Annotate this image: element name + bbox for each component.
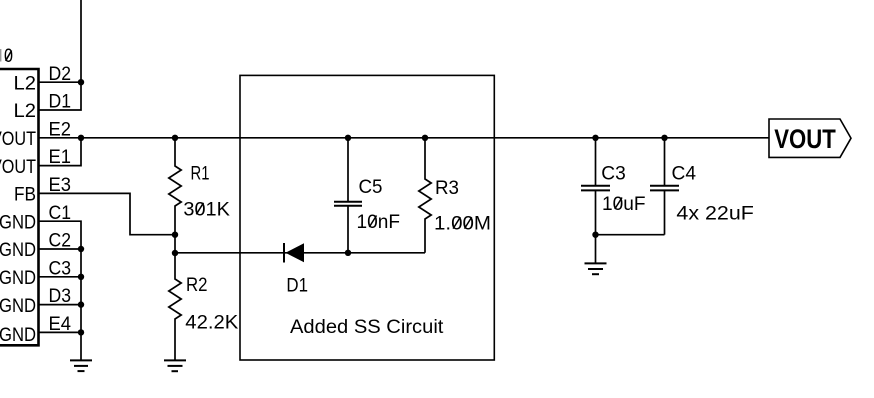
- svg-text:D2: D2: [49, 63, 72, 85]
- svg-text:D1: D1: [49, 91, 72, 113]
- svg-text:E1: E1: [49, 146, 72, 168]
- svg-text:E2: E2: [49, 118, 72, 140]
- svg-text:C1: C1: [49, 202, 72, 224]
- node: C2/gnd bus junction: [78, 246, 84, 252]
- svg-text:VOUT: VOUT: [774, 124, 836, 154]
- wire: E1 pin stub: [39, 138, 82, 166]
- capacitor C5: [334, 135, 383, 256]
- node: FB / R1 bottom junction: [172, 232, 178, 238]
- svg-text:4x 22uF: 4x 22uF: [676, 203, 754, 225]
- value 301K: [183, 198, 230, 220]
- node: D3/gnd bus junction: [78, 301, 84, 307]
- value 10nF: [357, 211, 401, 233]
- svg-text:R2: R2: [186, 274, 208, 296]
- resistor R2: [169, 253, 208, 360]
- svg-text:VOUT: VOUT: [0, 128, 36, 150]
- svg-text:C2: C2: [49, 230, 72, 252]
- wire: between FB junction and R2 top: [174, 235, 176, 253]
- wire: C2 pin stub: [39, 248, 82, 250]
- svg-text:C3: C3: [601, 162, 626, 184]
- wire: D1 pin stub: [39, 82, 82, 110]
- value 1.00M: [434, 213, 491, 235]
- svg-text:GND: GND: [0, 267, 36, 289]
- ground (C3/C4): [585, 263, 607, 274]
- svg-text:L2: L2: [14, 100, 37, 122]
- wire: C1 pin stub + gnd bus: [39, 221, 82, 360]
- svg-text:Added SS Circuit: Added SS Circuit: [290, 316, 444, 338]
- svg-text:301K: 301K: [183, 198, 230, 220]
- svg-text:GND: GND: [0, 324, 36, 346]
- wire: C3/C4 bottom tie: [596, 234, 665, 236]
- capacitor C3: [581, 135, 626, 264]
- node: C3/gnd bus junction: [78, 274, 84, 280]
- diode D1: [284, 243, 308, 297]
- node: D2/D1 junction: [78, 79, 84, 85]
- wire: FB route E3: [39, 193, 176, 234]
- value 10uF: [602, 193, 646, 215]
- svg-text:C3: C3: [49, 257, 72, 279]
- svg-text:GND: GND: [0, 295, 36, 317]
- node: E2/E1 junction: [78, 135, 84, 141]
- wire: soft-start net (D1 anode run): [175, 252, 425, 254]
- pin function labels (inside IC, right aligned): [0, 72, 36, 346]
- svg-text:R3: R3: [435, 177, 459, 199]
- svg-text:D3: D3: [49, 285, 72, 307]
- wire: D3 pin stub: [39, 304, 82, 306]
- svg-text:42.2K: 42.2K: [185, 311, 238, 333]
- ground (R2): [164, 360, 186, 371]
- box: Added SS Circuit: [240, 75, 494, 360]
- svg-text:E3: E3: [49, 174, 72, 196]
- VOUT flag: [769, 119, 851, 157]
- svg-text:D1: D1: [286, 275, 308, 297]
- svg-text:VOUT: VOUT: [0, 156, 36, 178]
- svg-text:L2: L2: [14, 72, 37, 94]
- IC U1 (partially cut off at left edge): [0, 69, 39, 345]
- svg-text:10nF: 10nF: [357, 211, 401, 233]
- node: E4/gnd bus junction: [78, 329, 84, 335]
- wire: net to D2/D1 going off top: [80, 0, 82, 82]
- wire: D2 pin stub: [39, 81, 82, 83]
- pin name labels (outside, above stubs): [49, 63, 72, 335]
- resistor R1: [169, 135, 210, 235]
- node: R2 top / D1 wire junction: [172, 250, 178, 256]
- svg-text:10uF: 10uF: [602, 193, 646, 215]
- svg-text:GND: GND: [0, 211, 36, 233]
- wire: main VOUT net: [39, 137, 770, 139]
- svg-text:GND: GND: [0, 239, 36, 261]
- wire: C3 pin stub: [39, 276, 82, 278]
- capacitor C4: [650, 135, 696, 235]
- resistor R3: [419, 135, 459, 253]
- IC part-number fragment "0" (slashed zero, cut off): [0, 45, 13, 67]
- ground (IC gnd bus): [70, 360, 92, 371]
- svg-text:C4: C4: [672, 162, 697, 184]
- svg-text:E4: E4: [49, 313, 72, 335]
- svg-text:1.00M: 1.00M: [434, 213, 491, 235]
- svg-text:C5: C5: [359, 176, 383, 198]
- wire: E4 pin stub: [39, 331, 82, 333]
- svg-text:FB: FB: [14, 184, 36, 206]
- svg-text:R1: R1: [191, 162, 210, 184]
